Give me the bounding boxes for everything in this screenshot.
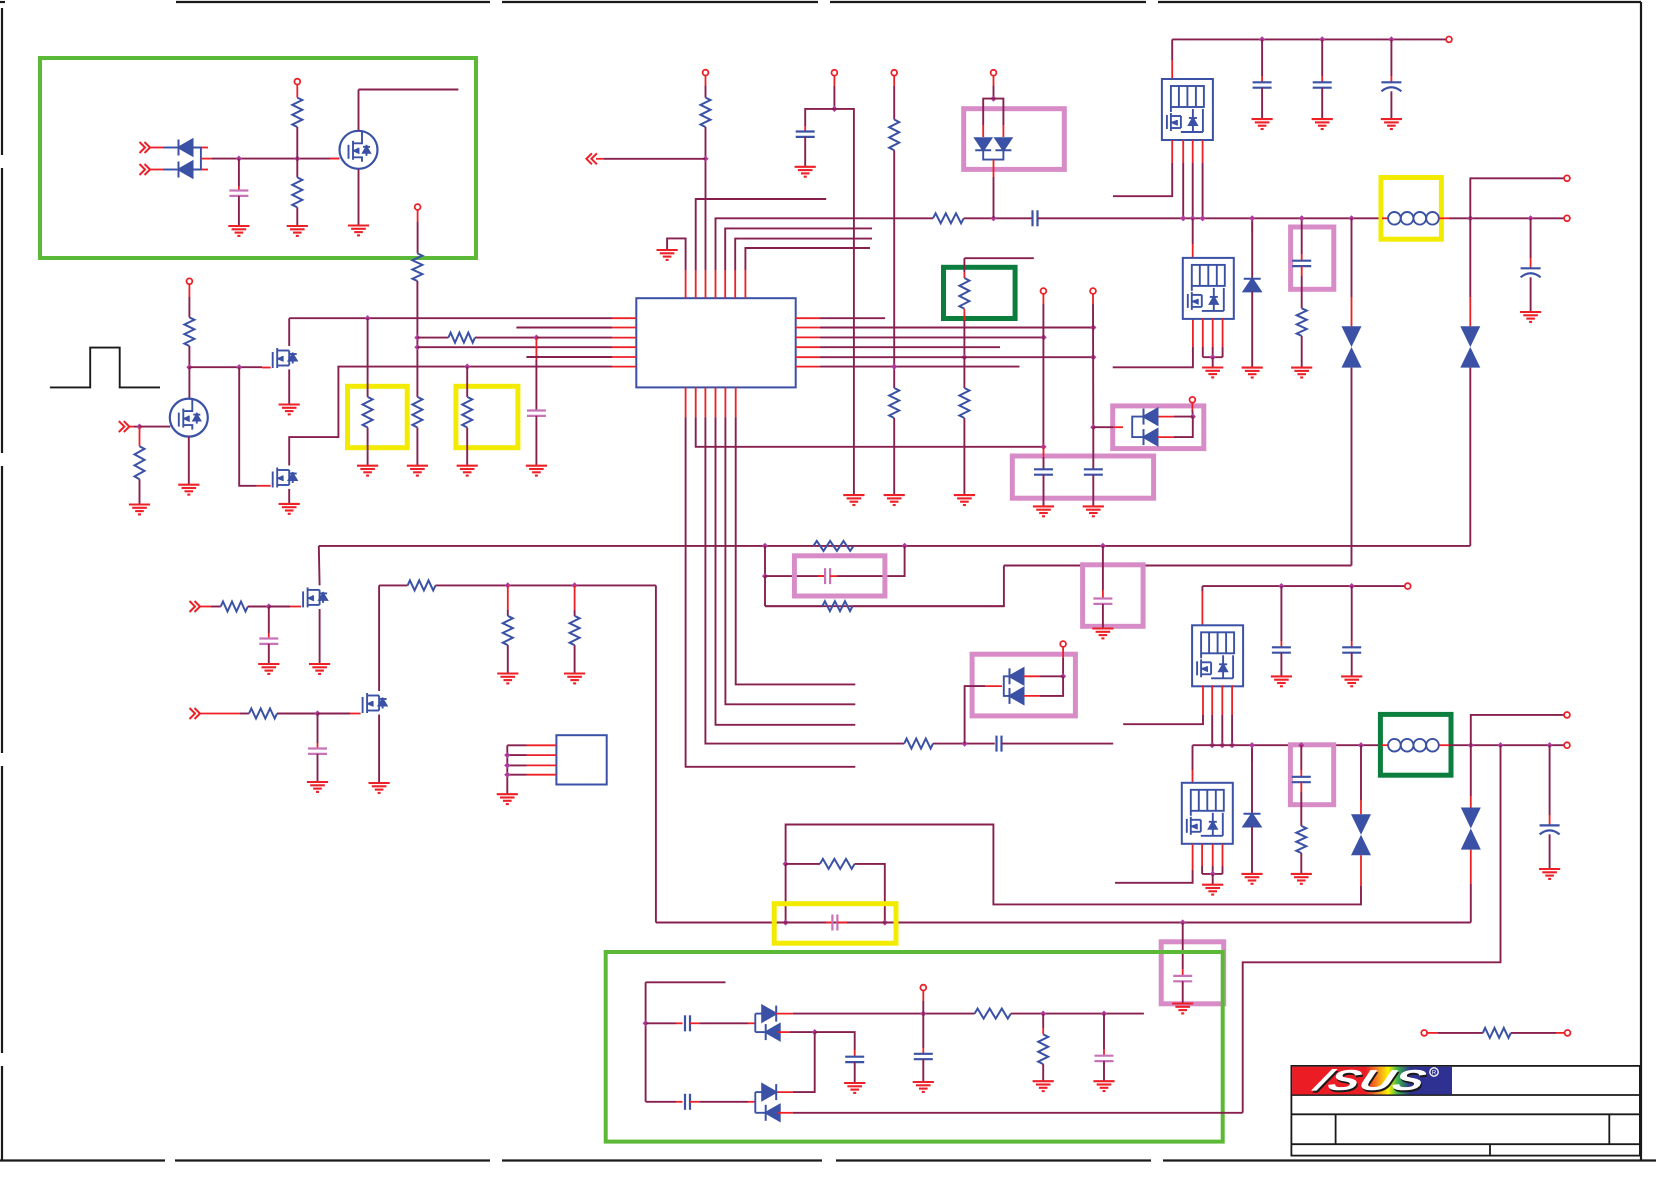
wire SW down bbox=[1192, 218, 1194, 244]
junction bbox=[783, 919, 789, 925]
capacitor C20 bbox=[832, 915, 837, 931]
ground under C8 bbox=[1252, 119, 1273, 129]
wire R27 branch bbox=[1042, 1014, 1044, 1028]
wire Q6 pin4 to bracket bbox=[1222, 347, 1224, 357]
wire C21 to ground bbox=[1182, 981, 1184, 1003]
wire Q4 source to ground bbox=[288, 489, 290, 504]
junction bbox=[414, 335, 420, 341]
input arrow EN2 bbox=[190, 708, 201, 719]
capacitor C11 snubber bbox=[1292, 261, 1311, 266]
wire C18 to R24 bbox=[1300, 792, 1302, 826]
wire C21 lead red bbox=[1182, 969, 1184, 976]
wire pin B4 down bbox=[716, 417, 856, 725]
port VIN sense bbox=[294, 79, 300, 85]
ground under R23 bbox=[564, 674, 585, 684]
wire to R28 bbox=[1438, 1032, 1483, 1034]
wire SW down bbox=[1351, 218, 1353, 297]
resistor R23 bbox=[570, 616, 580, 645]
wire pin B3 down to COMP bbox=[705, 417, 904, 743]
junction bbox=[314, 710, 320, 716]
wire to R23 bbox=[574, 610, 576, 616]
wire lead red bbox=[1556, 1032, 1565, 1034]
resistor R21 bbox=[408, 580, 436, 590]
port gate drive bbox=[187, 278, 193, 284]
wire D9a cathode red bbox=[776, 1091, 793, 1093]
wire SYS to C27 bbox=[1102, 546, 1104, 590]
wire node to cap C1 bbox=[238, 159, 240, 186]
ground under C10 bbox=[1381, 119, 1402, 129]
wire D7 top red bbox=[1251, 750, 1253, 762]
port VOUT1A bbox=[1564, 175, 1570, 181]
wire SW to TVS1 red bbox=[1351, 297, 1353, 326]
wire R20 to node bbox=[277, 713, 318, 715]
wire pin T7 up bbox=[745, 248, 870, 270]
wire adapter input row2 bbox=[201, 169, 208, 171]
wire Q10 pin2 red bbox=[1201, 844, 1203, 866]
junction bbox=[1249, 215, 1255, 221]
wire D5b cathode red bbox=[1023, 695, 1040, 697]
MOSFET Q7 bbox=[303, 587, 327, 607]
port VIN bbox=[1446, 37, 1452, 43]
junction bbox=[1060, 673, 1066, 679]
port VCC bbox=[891, 70, 897, 76]
wire C5 to ground bbox=[1043, 475, 1045, 507]
junction bbox=[1278, 583, 1284, 589]
wire Q5 pin3 to SW bbox=[1192, 163, 1194, 218]
dual MOSFET Q5 high side ch1 bbox=[1162, 79, 1213, 140]
wire pin T5 up bbox=[725, 228, 872, 270]
wire row1 to C22 bbox=[646, 1022, 676, 1024]
wire C18 down red bbox=[1300, 782, 1302, 792]
wire TVS1 down bbox=[1351, 368, 1353, 566]
wire Q9 pin3 to SW2 bbox=[1221, 715, 1223, 745]
junction bbox=[1041, 334, 1047, 340]
junction bbox=[1497, 742, 1503, 748]
resistor R15 bbox=[904, 739, 933, 749]
junction bbox=[962, 741, 968, 747]
wire C11 down red bbox=[1301, 266, 1303, 276]
wire output cap branch red bbox=[1530, 258, 1532, 268]
wire TVS3 corner west bbox=[786, 825, 1361, 905]
wire diode lead red bbox=[1002, 125, 1004, 137]
resistor R10 bbox=[701, 98, 711, 127]
wire row R2 bbox=[820, 327, 1093, 329]
wire R12 long down bbox=[893, 150, 895, 388]
frame bottom border bbox=[0, 1159, 165, 1161]
junction bbox=[1219, 742, 1225, 748]
junction bbox=[1209, 742, 1215, 748]
IC U1 top pin stubs bbox=[686, 270, 746, 298]
ground IC analog bbox=[657, 250, 678, 260]
diode D5a bbox=[1010, 668, 1024, 684]
resistor R14 bbox=[959, 278, 969, 309]
wire VOUT2 down bbox=[1470, 745, 1472, 796]
wire east branch down bbox=[834, 109, 854, 495]
junction bbox=[920, 1011, 926, 1017]
wire anode west red bbox=[985, 685, 1002, 687]
port VOUT2B bbox=[1564, 742, 1570, 748]
junction bbox=[1298, 742, 1304, 748]
wire Q1 source down bbox=[358, 169, 360, 225]
wire node to C23 bbox=[922, 1014, 924, 1048]
wire R1 to node bbox=[296, 127, 298, 177]
wire row2 to C25 bbox=[646, 1101, 676, 1103]
wire TVS2 down to SYS rail bbox=[1469, 368, 1471, 546]
ground under C2 bbox=[526, 466, 547, 476]
ground under R24 bbox=[1291, 874, 1312, 884]
junction bbox=[504, 762, 510, 768]
wire C15 to ground bbox=[317, 754, 319, 782]
wire Q5 pin1 red bbox=[1171, 140, 1173, 163]
wire DAC branch down bbox=[1092, 427, 1094, 469]
junction bbox=[1349, 583, 1355, 589]
highlight box dual diode D5 bbox=[972, 654, 1075, 716]
ground under C21 bbox=[1172, 1004, 1193, 1014]
wire SW2 to snubber bbox=[1300, 745, 1302, 770]
ground under Q7 bbox=[309, 664, 330, 674]
IC U1 left pin stubs bbox=[612, 318, 636, 366]
wire Q5 pin2 to SW bbox=[1182, 163, 1184, 218]
port TH1 bbox=[1421, 1030, 1427, 1036]
wire Q10 pin3 to bracket bbox=[1212, 866, 1214, 874]
wire C25 to diode pair2 bbox=[700, 1101, 748, 1103]
port CELL bbox=[1041, 288, 1047, 294]
wire U2 common down bbox=[506, 745, 508, 794]
ground under D7 bbox=[1241, 874, 1262, 884]
ground under C24 bbox=[844, 1083, 865, 1093]
ground under C6 bbox=[1083, 506, 1104, 516]
wire VOUT2 to TVS4 red bbox=[1470, 796, 1472, 808]
junction bbox=[236, 156, 242, 162]
wire stem bbox=[705, 86, 707, 98]
resistor R19 bbox=[221, 602, 248, 612]
U2 pin stubs red bbox=[527, 745, 557, 774]
wire CELL down to FB node bbox=[1042, 304, 1044, 447]
wire CELL stem red bbox=[1042, 294, 1044, 304]
dual MOSFET Q10 low side ch2 bbox=[1182, 783, 1233, 844]
wire C20 lead red bbox=[826, 922, 831, 924]
wire pin T6 up bbox=[735, 239, 872, 270]
dual MOSFET Q9 high side ch2 bbox=[1192, 625, 1243, 686]
wire down to SW net bbox=[993, 177, 995, 218]
highlight box C13 bbox=[794, 556, 885, 596]
wire TVS4 down red bbox=[1470, 850, 1472, 884]
wire SW to Q6 red bbox=[1192, 244, 1194, 258]
wire C8 lead bbox=[1261, 39, 1263, 76]
port TH2 bbox=[1565, 1030, 1571, 1036]
ground under R4 bbox=[407, 466, 428, 476]
wire bracket stub c bbox=[755, 1091, 764, 1093]
ground under R22 bbox=[497, 674, 518, 684]
wire pump low rail east bbox=[793, 1112, 1243, 1114]
junction bbox=[1180, 215, 1186, 221]
wire Q10 pin1 corner west bbox=[1115, 870, 1193, 883]
junction bbox=[1180, 919, 1186, 925]
highlight box adapter input circuit bbox=[40, 58, 476, 258]
ground under C12 bbox=[1520, 312, 1541, 322]
wire VIN top rail bbox=[1172, 38, 1446, 40]
capacitor C27 bbox=[1093, 599, 1112, 604]
diode D4b bbox=[1144, 429, 1158, 445]
wire D8a cathode red bbox=[776, 1013, 793, 1015]
highlight box dual diode D3 bbox=[964, 109, 1065, 170]
inductor L2 bbox=[1388, 739, 1439, 752]
wire down to C2 bbox=[535, 360, 537, 411]
ground under R7 bbox=[357, 466, 378, 476]
wire west branch to C4 bbox=[805, 109, 834, 126]
ground under C1 bbox=[228, 226, 249, 236]
resistor R24 snubber bbox=[1296, 826, 1306, 853]
wire hook top bbox=[646, 981, 726, 983]
wire ACIN down bbox=[417, 222, 419, 253]
wire Q9 pin4 to SW2 bbox=[1231, 715, 1233, 745]
wire to R19 bbox=[211, 606, 221, 608]
ground under C17 bbox=[1341, 676, 1362, 686]
capacitor C21 bbox=[1173, 976, 1192, 981]
wire output branch up bbox=[1471, 715, 1565, 745]
port VDD bbox=[703, 70, 709, 76]
wire C14 to ground bbox=[268, 644, 270, 664]
junction bbox=[1528, 215, 1534, 221]
wire row R1 stub bbox=[820, 317, 885, 319]
wire C17 to ground bbox=[1351, 653, 1353, 677]
wire node down to D9a bbox=[793, 1032, 815, 1092]
wire bracket stub d bbox=[755, 1112, 765, 1114]
port VREF bbox=[832, 70, 838, 76]
junction bbox=[504, 772, 510, 778]
resistor R16 snubber bbox=[1297, 308, 1307, 336]
wire row L3 west segment bbox=[417, 337, 448, 339]
wire Q9 pin2 red bbox=[1211, 685, 1213, 715]
wire Q6 source bracket bbox=[1203, 356, 1223, 358]
wire SW2 to D7 bbox=[1251, 745, 1253, 814]
wire Q6 pin3 red bbox=[1212, 318, 1214, 347]
wire into box bbox=[1043, 457, 1045, 469]
wire port stem red bbox=[1191, 402, 1193, 410]
resistor R4 bbox=[412, 397, 422, 428]
polarized capacitor C12 bbox=[1521, 268, 1541, 277]
wire U2 pins common bbox=[507, 744, 526, 746]
wire FB upper branch bbox=[764, 546, 766, 576]
TVS diode Z1 bbox=[1342, 326, 1362, 367]
highlight box snubber ch1 bbox=[1291, 227, 1334, 289]
wire R13 to ground bbox=[893, 418, 895, 495]
wire Q10 pin2 to bracket bbox=[1201, 866, 1203, 874]
ground rail 1 bbox=[843, 495, 864, 505]
junction bbox=[1210, 871, 1216, 877]
wire row R6 bbox=[820, 366, 1020, 368]
wire branch west into box bbox=[983, 99, 993, 125]
wire R14 lead red bbox=[963, 272, 965, 278]
wire chevron1 lead bbox=[149, 147, 163, 149]
wire node east bbox=[269, 606, 290, 608]
capacitor C18 snubber bbox=[1292, 777, 1311, 782]
highlight box C21 bbox=[1161, 942, 1224, 1004]
capacitor C14 bbox=[259, 639, 278, 644]
wire SW2 corner down bbox=[1192, 745, 1194, 770]
wire row R5 node down bbox=[963, 357, 965, 388]
wire C23 lead red bbox=[922, 1048, 924, 1054]
junction bbox=[1090, 424, 1096, 430]
capacitor C24 bbox=[845, 1057, 864, 1062]
capacitor C23 bbox=[914, 1054, 933, 1059]
ground under R6 bbox=[129, 505, 150, 515]
wire left vertical bbox=[645, 982, 647, 1102]
highlight box dual diode D4 bbox=[1113, 406, 1204, 449]
capacitor C5 bbox=[1034, 469, 1053, 474]
wire SW2 bus bbox=[1193, 744, 1382, 746]
wire diode output to node bbox=[212, 158, 340, 160]
wire C27 to ground bbox=[1102, 604, 1104, 629]
junction bbox=[1319, 36, 1325, 42]
IC U2 thermal sensor bbox=[556, 735, 606, 784]
wire L2 to output bbox=[1449, 744, 1564, 746]
wire C17 lead bbox=[1351, 586, 1353, 641]
TVS diode Z2 bbox=[1460, 326, 1480, 367]
capacitor C8 bbox=[1253, 82, 1272, 87]
wire C6 to ground bbox=[1092, 475, 1094, 507]
waveform symbol square pulse bbox=[50, 348, 160, 388]
wire pump rail bbox=[793, 1013, 975, 1015]
junction bbox=[1190, 414, 1196, 420]
wire Q10 pin4 red bbox=[1222, 844, 1224, 866]
wire diode bracket bbox=[1132, 417, 1143, 438]
wire C16 to ground bbox=[1280, 653, 1282, 677]
wire C22 east red bbox=[690, 1022, 700, 1024]
ground under Q6 bbox=[1202, 368, 1223, 378]
MOSFET Q2 level shift bbox=[170, 399, 208, 437]
wire D6 top red bbox=[1251, 222, 1253, 232]
wire R23 lead red bbox=[574, 585, 576, 610]
wire pin B6 down bbox=[736, 417, 856, 684]
wire R3 down to rows bbox=[416, 281, 418, 397]
wire chevron lead red bbox=[199, 713, 240, 715]
diode D8b bbox=[766, 1024, 780, 1040]
output arrow to page bbox=[586, 153, 597, 164]
wire Q6 pin2 red bbox=[1202, 318, 1204, 347]
port VOUT1B bbox=[1564, 215, 1570, 221]
wire Q6 pin4 red bbox=[1222, 318, 1224, 347]
input arrow EN1 bbox=[190, 601, 201, 612]
capacitor C25 bbox=[685, 1094, 690, 1110]
wire to node bbox=[1174, 416, 1193, 418]
wire VIN2 rail bbox=[1202, 585, 1405, 587]
MOSFET Q1 adapter switch bbox=[340, 131, 378, 169]
wire anode to DAC net bbox=[1093, 426, 1113, 428]
junction bbox=[1249, 742, 1255, 748]
wire diode bracket bbox=[191, 148, 201, 170]
diode D3a bbox=[975, 138, 991, 150]
wire R8 to ground bbox=[466, 428, 468, 466]
wire D5a to node bbox=[1040, 675, 1063, 677]
resistor R13 bbox=[889, 388, 899, 418]
wire stem to node bbox=[1062, 658, 1064, 676]
wire C22 to diode pair bbox=[700, 1022, 748, 1024]
wire Q3 gate lead red bbox=[262, 367, 271, 369]
junction bbox=[504, 752, 510, 758]
wire pin lead red bbox=[1192, 318, 1194, 346]
wire R23 to ground bbox=[574, 645, 576, 673]
junction bbox=[1229, 742, 1235, 748]
wire C9 lead bbox=[1321, 39, 1323, 76]
ground under Q3 bbox=[279, 405, 300, 415]
wire Q10 source bracket bbox=[1202, 873, 1222, 875]
ground under Q1 bbox=[348, 226, 369, 236]
wire Q9 pin4 red bbox=[1231, 685, 1233, 715]
wire C3 east to switch node bbox=[1038, 217, 1382, 219]
wire port stem red bbox=[1062, 647, 1064, 658]
MOSFET Q8 bbox=[363, 693, 387, 713]
resistor R29 bbox=[959, 388, 969, 418]
junction bbox=[783, 861, 789, 867]
wire node down bbox=[317, 714, 319, 744]
highlight box R14 bbox=[944, 267, 1016, 318]
input arrow DCIN1 bbox=[140, 142, 151, 153]
junction bbox=[1101, 1011, 1107, 1017]
wire Q9 pin2 to SW2 bbox=[1211, 715, 1213, 745]
wire stub rail bbox=[964, 257, 1033, 259]
junction bbox=[1358, 742, 1364, 748]
junction bbox=[1200, 215, 1206, 221]
resistor R17 sense bbox=[813, 541, 853, 551]
port VPUMP bbox=[920, 985, 926, 991]
highlight box L2 bbox=[1380, 714, 1451, 775]
wire C20 lead red bbox=[837, 922, 847, 924]
wire pin T2 up bbox=[696, 199, 827, 270]
inductor L1 bbox=[1388, 212, 1439, 225]
wire FB2 node down bbox=[785, 864, 787, 923]
frame right border bbox=[1640, 2, 1642, 1161]
ground under C19 bbox=[1539, 869, 1560, 879]
resistor R28 bbox=[1483, 1028, 1511, 1038]
wire VOUT down bbox=[1469, 218, 1471, 297]
wire cap C1 lead red bbox=[238, 186, 240, 191]
wire coil lead red bbox=[1382, 217, 1388, 219]
resistor R26 bbox=[975, 1009, 1011, 1019]
wire Q1 drain up bbox=[358, 90, 360, 131]
wire C17 lead red bbox=[1351, 641, 1353, 647]
wire row R6 east segment bbox=[1113, 347, 1193, 368]
wire R25 east corner bbox=[855, 864, 885, 923]
wire corner down to FB2 rail bbox=[655, 585, 657, 922]
resistor R8 bbox=[462, 397, 472, 428]
highlight box C20 bbox=[774, 904, 896, 944]
wire bracket to ground bbox=[1212, 874, 1214, 885]
capacitor C3 boot bbox=[1033, 210, 1038, 226]
wire chevron lead red bbox=[199, 606, 211, 608]
wire chevron2 to diode bbox=[163, 169, 177, 171]
wire C8 lead red bbox=[1261, 76, 1263, 82]
wire SW to snubber bbox=[1301, 218, 1303, 254]
wire node to Q4 gate dogleg bbox=[239, 367, 257, 486]
wire output branch up bbox=[1470, 178, 1564, 218]
wire rail2 to comp line bbox=[765, 566, 1004, 607]
wire C7 east stub bbox=[1002, 743, 1114, 745]
wire C26 lead red bbox=[1103, 1049, 1105, 1056]
wire row L4 to IC bbox=[417, 346, 612, 348]
wire Q5 pin1 to gate line bbox=[1113, 163, 1172, 196]
wire C21 lead bbox=[1182, 923, 1184, 970]
wire FB2 resistor row bbox=[786, 863, 820, 865]
wire R9 to node bbox=[475, 337, 537, 339]
junction bbox=[990, 215, 996, 221]
wire C19 branch red bbox=[1549, 815, 1551, 825]
wire diode bracket bbox=[1004, 676, 1010, 696]
svg-text:/SUS: /SUS bbox=[1307, 1065, 1430, 1097]
port DAC bbox=[1090, 288, 1096, 294]
wire Q3 source to ground bbox=[288, 369, 290, 404]
wire Q6 pin2 to bracket bbox=[1202, 347, 1204, 357]
